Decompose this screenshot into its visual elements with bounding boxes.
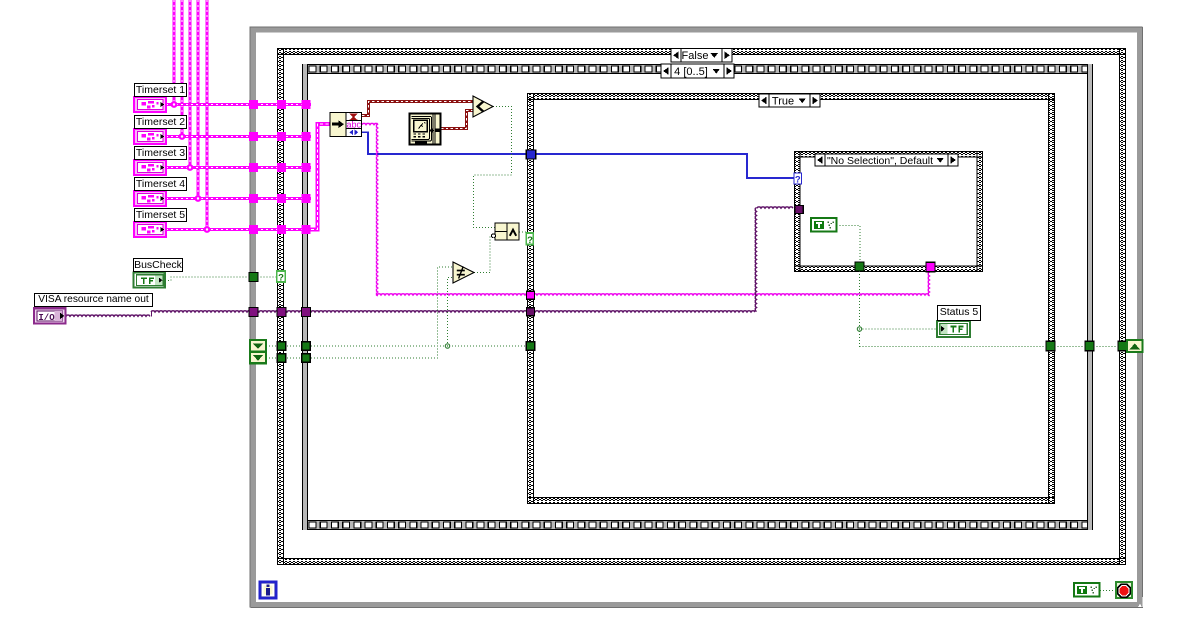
- control terminal: Timerset 2 cluster: [134, 129, 166, 144]
- constant: True (in No Selection case): [811, 218, 837, 232]
- wire: Timerset 5 to tunnels: [166, 228, 311, 231]
- label: Timerset 5: [134, 208, 187, 222]
- tunnel: string magenta on True case: [527, 291, 535, 299]
- label: Timerset 2: [134, 115, 187, 129]
- shift register left (2 elements): [250, 340, 266, 363]
- wire: Timerset 4 vertical branch: [196, 0, 199, 199]
- wire: Timerset 3 to tunnels: [166, 166, 311, 169]
- control terminal: VISA resource name out: [34, 308, 66, 323]
- wire: Timerset 2 vertical branch: [180, 0, 183, 137]
- node: Not Equal? comparator: [453, 262, 474, 283]
- tunnels: No Selection case bottom: [855, 262, 935, 272]
- wire: shift register bottom to Not Equal? top input: [266, 267, 453, 358]
- junction: status wire: [857, 327, 861, 331]
- control terminal: BusCheck boolean: [133, 273, 164, 288]
- while loop frame: [250, 26, 1143, 608]
- svg-text:False: False: [682, 50, 709, 62]
- svg-text:?: ?: [527, 235, 533, 246]
- shift register right: [1127, 340, 1143, 352]
- selector terminal ? on True case: [526, 233, 533, 246]
- junction: Timerset 3 branch: [187, 164, 194, 171]
- svg-text:4 [0..5]: 4 [0..5]: [674, 66, 708, 78]
- wire: And output to True case selector: [519, 231, 527, 233]
- wire: Timerset 4 to tunnels: [166, 197, 311, 200]
- tunnel: blue numeric on True case: [526, 150, 536, 159]
- svg-text:"No Selection", Default: "No Selection", Default: [827, 155, 933, 167]
- tunnels: Timerset 2 row: [249, 132, 311, 141]
- control terminal: Timerset 1 cluster: [134, 97, 166, 112]
- node: And (compound): [492, 223, 520, 240]
- svg-text:?: ?: [278, 273, 284, 284]
- case structure (No Selection, Default) border: [794, 151, 983, 272]
- svg-text:?: ?: [795, 175, 801, 186]
- case structure (False) border: [277, 48, 1126, 565]
- loop condition terminal (stop): [1116, 582, 1132, 598]
- indicator terminal: Status 5: [937, 321, 970, 337]
- case structure (True) border: [527, 93, 1055, 504]
- tunnels: green boolean rows 346/358: [277, 342, 535, 363]
- junction: Timerset 5 branch: [204, 226, 211, 233]
- tunnels: VISA purple: [249, 206, 803, 317]
- wire: Less? output to And: [474, 107, 512, 228]
- wire: Timerset 1 to tunnels: [166, 103, 311, 106]
- node: Unbundle By Name: [330, 113, 362, 137]
- label: Timerset 3: [134, 146, 187, 160]
- selector terminal ? on False case: [277, 271, 286, 284]
- junction: Timerset 2 branch: [179, 133, 186, 140]
- tunnels: Timerset 3 row: [249, 163, 311, 172]
- tunnels: Timerset 1 row: [249, 100, 311, 109]
- wire: Get Date/Time to Less? bottom input: [441, 111, 473, 129]
- wire: string across True case: [377, 294, 929, 295]
- wire: branch to Not Equal? bottom input: [448, 278, 454, 347]
- label: Timerset 4: [134, 177, 187, 191]
- control terminal: Timerset 5 cluster: [134, 222, 166, 237]
- wire: timestamp to Less? top input: [362, 102, 473, 116]
- label: Status 5: [937, 305, 981, 321]
- wire: Timerset 3 vertical branch: [188, 0, 191, 168]
- wire: BusCheck to case selector: [165, 277, 277, 281]
- wire: shift register top to tunnel (row 346): [266, 345, 530, 347]
- tunnels: Timerset 5 row: [249, 225, 311, 234]
- iteration terminal i: [260, 582, 276, 598]
- label: BusCheck: [133, 258, 183, 272]
- constant: True (bottom right): [1074, 583, 1100, 597]
- control terminal: Timerset 3 cluster: [134, 160, 166, 175]
- wire: numeric inside True case to No Selection selector: [536, 154, 794, 178]
- junction: Timerset 1 branch: [171, 101, 178, 108]
- wire: VISA resource: [66, 315, 150, 316]
- wire: Not Equal? output to And inverted input: [474, 236, 492, 273]
- wire: boolean to output tunnels and shift register: [860, 346, 1128, 348]
- tunnel: BusCheck green through while border: [249, 273, 258, 282]
- selector label: No Selection Default case: [815, 154, 958, 167]
- svg-text:I/O: I/O: [38, 313, 55, 323]
- svg-text:True: True: [772, 96, 794, 108]
- wire: numeric from Unbundle to case selector ?: [362, 132, 531, 154]
- junction: boolean branch: [445, 344, 449, 348]
- stacked sequence structure border: [302, 64, 1093, 530]
- selector label: True case: [759, 94, 820, 108]
- selector label: False case: [671, 49, 732, 63]
- wire: True constant to tunnel: [837, 226, 861, 263]
- label: Timerset 1: [134, 83, 187, 97]
- svg-text:abc: abc: [346, 120, 361, 130]
- wire: Timerset 5 cluster to Unbundle: [306, 124, 330, 230]
- wire: Timerset 2 to tunnels: [166, 135, 311, 138]
- junction: Timerset 4 branch: [195, 195, 202, 202]
- wire: string from Unbundle (abc): [362, 123, 378, 124]
- selector label: sequence frame 4 [0..5]: [661, 64, 734, 78]
- label: VISA resource name out: [34, 293, 153, 308]
- wire: boolean down to junction and Status 5: [859, 271, 861, 347]
- tunnels: Timerset 4 row: [249, 194, 311, 203]
- wire: Timerset 5 vertical branch: [205, 0, 208, 230]
- selector terminal ? on No Selection case (blue): [794, 173, 802, 186]
- node: Less? comparator: [473, 96, 493, 117]
- wire: True constant to loop condition: [1100, 590, 1116, 592]
- wire: Timerset 1 vertical branch: [172, 0, 175, 105]
- tunnels: green boolean right side: [1046, 341, 1127, 351]
- node: Get Date/Time (instrument icon): [410, 114, 441, 145]
- control terminal: Timerset 4 cluster: [134, 191, 166, 206]
